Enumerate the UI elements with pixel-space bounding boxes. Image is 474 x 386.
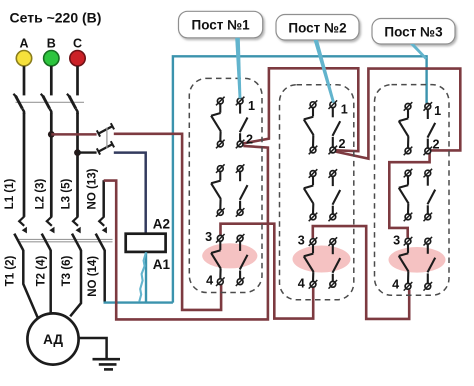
start button highlight ellipse post 1: [202, 243, 257, 268]
wire A1 to bottom rail (cyan): [145, 252, 147, 302]
svg-text:1: 1: [248, 99, 255, 113]
start button highlight ellipse post 2: [293, 246, 351, 273]
KM1 aux contact NO 13-14: [99, 217, 104, 226]
svg-text:2: 2: [338, 137, 345, 151]
callout label Пост №2: [276, 15, 359, 41]
svg-text:T3 (6): T3 (6): [61, 255, 73, 286]
svg-text:Пост №2: Пост №2: [288, 20, 346, 35]
wire contact to coil A2 (navy): [114, 153, 146, 234]
post 3 middle button contacts left bridge: [405, 170, 411, 176]
wire post1 terminal 2 to post2 terminal 2 (top rail A): [243, 68, 358, 151]
svg-text:АД: АД: [43, 332, 63, 347]
wire bus terminal-1 rail (cyan): [173, 56, 427, 302]
svg-text:3: 3: [205, 230, 212, 244]
svg-text:3: 3: [393, 234, 400, 248]
svg-text:2: 2: [432, 138, 439, 152]
wire A1 jagged (light cyan): [139, 253, 146, 302]
KM1 top contact (phase B feed): [98, 126, 112, 134]
post 1 stop button contacts left bridge: [217, 98, 223, 104]
push-button station Пост №2 dashed outline: [280, 85, 354, 300]
svg-text:NO (14): NO (14): [87, 256, 99, 297]
ground symbol: [93, 358, 121, 361]
wire phase C node to control contact: [78, 151, 97, 153]
svg-text:В: В: [47, 37, 56, 51]
KM1 main contact L2-T2: [47, 217, 52, 226]
wire phase С to contactor KM1: [76, 113, 79, 217]
svg-text:NO (13): NO (13): [87, 168, 99, 209]
node on phase B: [48, 131, 55, 138]
node on phase C: [74, 149, 81, 156]
post 2 stop button contacts right bridge: [330, 102, 336, 108]
svg-text:1: 1: [434, 104, 441, 118]
wire phase contact to start buttons feed: [114, 134, 221, 310]
svg-text:С: С: [73, 37, 82, 51]
push-button station Пост №3 dashed outline: [375, 85, 450, 296]
post 2 start button contacts right bridge: [330, 239, 336, 245]
svg-text:2: 2: [246, 133, 253, 147]
post 3 start button contacts right bridge: [425, 238, 431, 244]
svg-text:T2 (4): T2 (4): [35, 255, 47, 286]
wire NO(13) self-hold to bus and post1 terminal 2: [104, 146, 268, 320]
svg-text:A2: A2: [153, 216, 170, 231]
push-button station Пост №1 dashed outline: [189, 78, 262, 292]
post 2 start button contacts left bridge: [310, 239, 316, 245]
svg-text:3: 3: [298, 234, 305, 248]
post 1 middle button contacts right bridge: [237, 166, 243, 172]
post 1 start button contacts right bridge: [237, 235, 243, 241]
motor АД: [27, 313, 78, 364]
svg-text:А: А: [19, 37, 28, 51]
svg-text:Пост №1: Пост №1: [191, 18, 250, 33]
KM1 main contact L3-T3: [73, 217, 78, 226]
svg-text:L1 (1): L1 (1): [4, 178, 16, 209]
svg-text:4: 4: [392, 278, 399, 292]
wire phase С lamp to switch: [76, 66, 79, 95]
post 3 middle button contacts right bridge: [425, 170, 431, 176]
post 2 middle button contacts right bridge: [330, 171, 336, 177]
wire phase B node to power contact (maroon): [51, 133, 96, 136]
wire bottom cyan rail NO(14)-A1: [105, 302, 173, 303]
start button highlight ellipse post 3: [389, 247, 446, 273]
leader line Пост №1 to post 1 terminal 1: [235, 38, 241, 99]
svg-text:4: 4: [206, 274, 213, 288]
wire T1 to motor: [23, 250, 38, 320]
knife switch pole phase С: [69, 96, 76, 109]
KM1 second contact (phase C feed): [98, 144, 112, 152]
contactor coil KM1 A2-A1: [126, 234, 166, 252]
post 3 stop button contacts left bridge: [405, 104, 411, 110]
svg-text:T1 (2): T1 (2): [5, 255, 17, 286]
knife switch pole phase В: [43, 96, 50, 109]
wire phase В to contactor KM1: [50, 113, 53, 217]
svg-text:A1: A1: [153, 257, 171, 272]
svg-text:Сеть ~220 (В): Сеть ~220 (В): [10, 10, 102, 26]
wire post1 terminal 3 to post2 terminal 4: [221, 224, 314, 319]
wire phase А lamp to switch: [23, 66, 26, 95]
wire NO(13) to aux contact: [102, 180, 105, 217]
KM1 main contact L1-T1: [19, 217, 24, 226]
svg-text:L3 (5): L3 (5): [60, 178, 72, 209]
callout label Пост №3: [372, 19, 455, 45]
svg-text:L2 (3): L2 (3): [35, 178, 47, 209]
svg-text:Пост №3: Пост №3: [384, 24, 443, 39]
post 1 stop button contacts right bridge: [237, 98, 243, 104]
svg-text:4: 4: [298, 277, 305, 291]
leader line Пост №3 to wire corner: [410, 44, 427, 59]
post 2 middle button contacts left bridge: [310, 171, 316, 177]
wire phase В lamp to switch: [50, 66, 53, 95]
wire post2 terminal 2 to post3 terminal 2 (top rail B): [336, 69, 461, 159]
mechanical link of contact pair: [106, 128, 108, 149]
wire motor to ground: [79, 338, 107, 359]
leader line Пост №2 to post 2 terminal 1: [314, 40, 335, 103]
wire phase А to contactor KM1: [23, 113, 26, 217]
mechanical link of contactor KM1: [18, 238, 113, 240]
svg-text:1: 1: [341, 103, 348, 117]
wire post2 terminal 3 to post3 terminal 4: [313, 226, 409, 319]
post 2 stop button contacts left bridge: [310, 102, 316, 108]
post 1 start button contacts left bridge: [217, 235, 223, 241]
wire post3 terminal 2 drop to terminal 3: [389, 153, 429, 238]
post 3 stop button contacts right bridge: [425, 104, 431, 110]
wire T2 to motor: [49, 250, 52, 315]
post 1 middle button contacts left bridge: [217, 166, 223, 172]
post 3 start button contacts left bridge: [405, 238, 411, 244]
knife switch pole phase А: [16, 96, 23, 109]
wire NO(14) down: [103, 250, 106, 302]
wire T3 to motor: [70, 250, 81, 316]
callout label Пост №1: [179, 11, 263, 38]
mechanical link of switch QS: [16, 101, 85, 103]
